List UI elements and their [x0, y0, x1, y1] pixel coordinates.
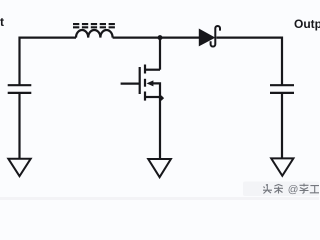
- wire MOSFET source node down to ground: [159, 97, 161, 159]
- diode D1 (Schottky): [199, 26, 220, 47]
- Q1 drain channel bar: [144, 65, 146, 74]
- glyph 条: [274, 185, 283, 194]
- glyph 李: [300, 184, 309, 194]
- wire top rail: diode cathode to output corner and down to C2: [216, 38, 282, 86]
- svg-text:@: @: [288, 184, 299, 196]
- glyph 工: [310, 186, 319, 193]
- ground symbol (middle): [148, 159, 171, 177]
- bottom strip: [0, 197, 319, 200]
- watermark panel: [243, 182, 319, 197]
- label Input (clipped at left edge, only final t visible): [0, 15, 4, 29]
- Q1 drain lead: [145, 69, 160, 71]
- wire C2 bottom to ground: [281, 93, 283, 158]
- wire left rail: input node down to C1 and across to inductor: [20, 38, 77, 86]
- watermark text 头条 @李工: [263, 184, 319, 194]
- inductor L1 core (two dashed bars): [73, 24, 115, 27]
- Q1 body channel bar: [144, 79, 146, 87]
- capacitor C2 plates: [270, 85, 294, 93]
- node: switch junction dot on top rail: [158, 35, 163, 40]
- ground symbol (left): [8, 159, 30, 177]
- Q1 source channel bar: [144, 92, 146, 101]
- glyph 头: [263, 184, 272, 194]
- Q1 gate bar: [139, 67, 141, 94]
- Q1 source-body junction diamond: [159, 95, 164, 100]
- Q1 body arrow line: [153, 83, 160, 97]
- wire C1 bottom to ground: [18, 93, 20, 159]
- wire switch node: top rail down to MOSFET drain lead: [159, 38, 161, 70]
- capacitor C1 plates: [8, 85, 32, 93]
- transistor Q1 (N-channel MOSFET): [121, 65, 160, 101]
- label Output (clipped at right edge): [294, 17, 320, 31]
- wire top rail: inductor to diode anode: [113, 36, 200, 38]
- Q1 gate lead: [121, 82, 140, 84]
- ground symbol (right): [271, 158, 293, 175]
- Q1 body arrow head: [147, 80, 154, 86]
- inductor L1 winding: [76, 30, 113, 38]
- Q1 source lead: [145, 96, 160, 98]
